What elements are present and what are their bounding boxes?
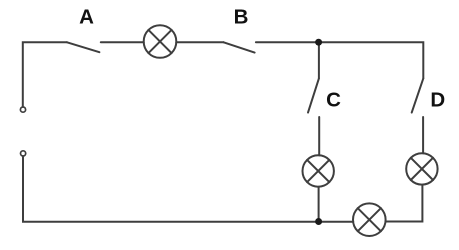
svg-text:D: D xyxy=(430,88,445,111)
svg-text:A: A xyxy=(79,6,94,29)
svg-text:B: B xyxy=(234,5,249,28)
svg-text:C: C xyxy=(326,89,341,112)
